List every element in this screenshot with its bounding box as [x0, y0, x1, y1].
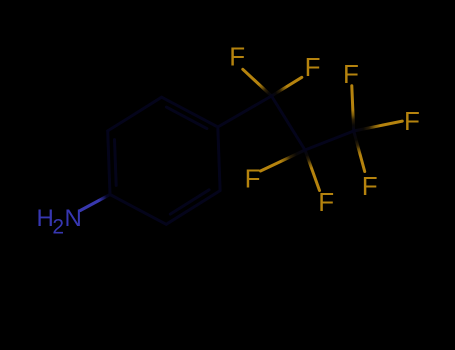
wire C3-F3: [352, 86, 354, 131]
label H2N: [37, 205, 82, 239]
wire C1-F1: [243, 69, 272, 96]
wire C3-F4: [354, 121, 403, 131]
wire double bond inner A-B: [115, 140, 117, 186]
wire ring to C1: [218, 96, 272, 127]
svg-text:H: H: [37, 205, 54, 232]
wire double bond inner D-E: [170, 190, 209, 214]
fluorine labels: [229, 42, 420, 217]
svg-text:F: F: [404, 106, 420, 136]
wire double bond inner C-V1: [166, 107, 207, 129]
wire C2-F6: [305, 150, 320, 191]
wire ring edge A-B: [108, 131, 110, 195]
wire ring edge D-E: [166, 191, 220, 225]
svg-text:F: F: [305, 52, 321, 82]
svg-text:N: N: [65, 205, 82, 232]
benzene ring: [108, 96, 354, 224]
wire ring edge V1-D: [218, 127, 220, 191]
svg-text:F: F: [229, 42, 245, 72]
svg-text:F: F: [318, 187, 334, 217]
svg-text:F: F: [362, 171, 378, 201]
wire ring edge C-V1: [162, 97, 218, 127]
wire C3-F7: [354, 131, 365, 172]
svg-text:2: 2: [52, 216, 64, 239]
wire C1-C2: [272, 96, 306, 150]
wire ring edge B-C: [108, 97, 162, 131]
amine bond N-ring: [81, 195, 111, 211]
svg-text:F: F: [245, 164, 261, 194]
wire C2-C3: [305, 131, 354, 150]
wire ring edge E-A: [110, 195, 166, 225]
wire C2-F5: [261, 150, 306, 171]
wire C1-F2: [272, 77, 302, 96]
svg-text:F: F: [343, 59, 359, 89]
